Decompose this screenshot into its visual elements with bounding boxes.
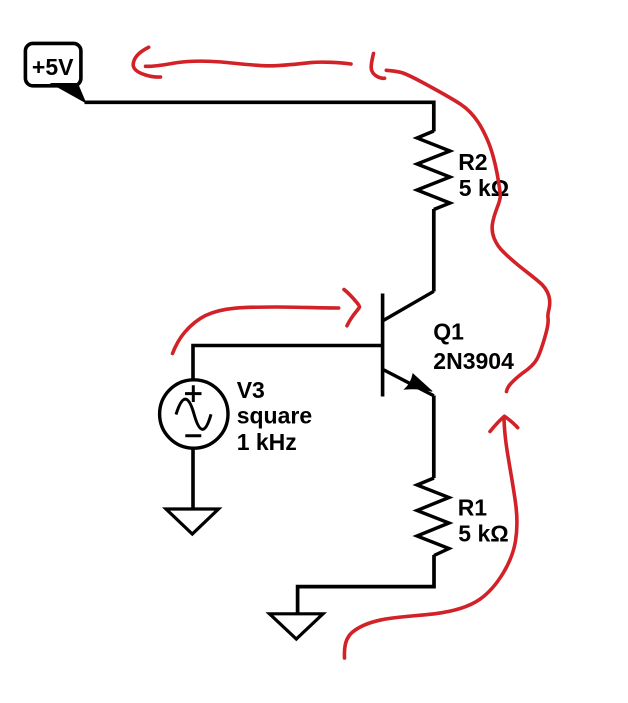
transistor Q1	[383, 291, 434, 396]
annotation red hook stroke (top)	[371, 53, 384, 78]
wire +5V to R2	[85, 102, 434, 131]
svg-text:R1: R1	[458, 495, 488, 521]
ground (under V3)	[166, 509, 219, 534]
wire R1 to ground	[298, 555, 434, 613]
ground (under R1)	[270, 614, 324, 639]
wire base	[193, 346, 381, 381]
annotation red arrow pointing right (at base)	[173, 290, 360, 354]
svg-text:1 kHz: 1 kHz	[237, 429, 297, 455]
wire R2 to collector	[432, 209, 436, 292]
svg-text:Q1: Q1	[433, 319, 464, 345]
annotation red arrow pointing up (bottom right)	[344, 416, 517, 658]
wire V3 to ground	[191, 447, 195, 509]
svg-text:+5V: +5V	[32, 54, 74, 80]
wire emitter to R1	[432, 396, 436, 479]
power +5V	[25, 43, 85, 102]
voltage source V3	[160, 380, 228, 448]
svg-text:2N3904: 2N3904	[433, 348, 514, 374]
svg-text:5 kΩ: 5 kΩ	[458, 521, 508, 547]
svg-text:square: square	[237, 402, 312, 428]
resistor R1	[417, 478, 449, 556]
svg-text:R2: R2	[458, 149, 487, 175]
svg-text:V3: V3	[237, 377, 265, 403]
annotation red arrow pointing left (top)	[133, 47, 351, 77]
annotation red curve (right side)	[386, 70, 549, 391]
resistor R2	[417, 131, 450, 210]
